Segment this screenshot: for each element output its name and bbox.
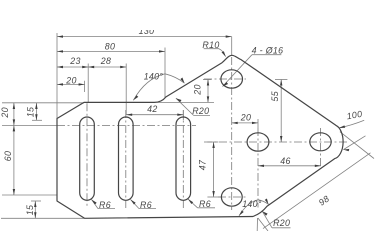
svg-text:15: 15: [26, 107, 36, 118]
svg-text:20: 20: [65, 75, 77, 85]
svg-text:20: 20: [192, 84, 202, 96]
svg-text:R6: R6: [199, 199, 211, 209]
svg-text:42: 42: [147, 104, 158, 114]
svg-text:15: 15: [25, 205, 35, 216]
svg-text:140°: 140°: [144, 72, 164, 82]
svg-text:20: 20: [0, 107, 10, 119]
svg-text:46: 46: [280, 156, 291, 166]
svg-text:R6: R6: [140, 200, 152, 210]
svg-text:R10: R10: [202, 40, 219, 50]
svg-text:28: 28: [100, 56, 112, 66]
svg-text:140°: 140°: [242, 199, 262, 209]
svg-text:R20: R20: [192, 106, 209, 116]
svg-text:23: 23: [69, 56, 81, 66]
svg-text:80: 80: [105, 42, 116, 52]
svg-text:R20: R20: [273, 218, 290, 228]
svg-text:47: 47: [198, 159, 208, 170]
svg-text:R6: R6: [99, 200, 111, 210]
svg-text:55: 55: [270, 91, 280, 102]
svg-text:20: 20: [240, 112, 252, 122]
svg-text:60: 60: [3, 151, 13, 162]
svg-text:4 - Ø16: 4 - Ø16: [252, 46, 284, 56]
